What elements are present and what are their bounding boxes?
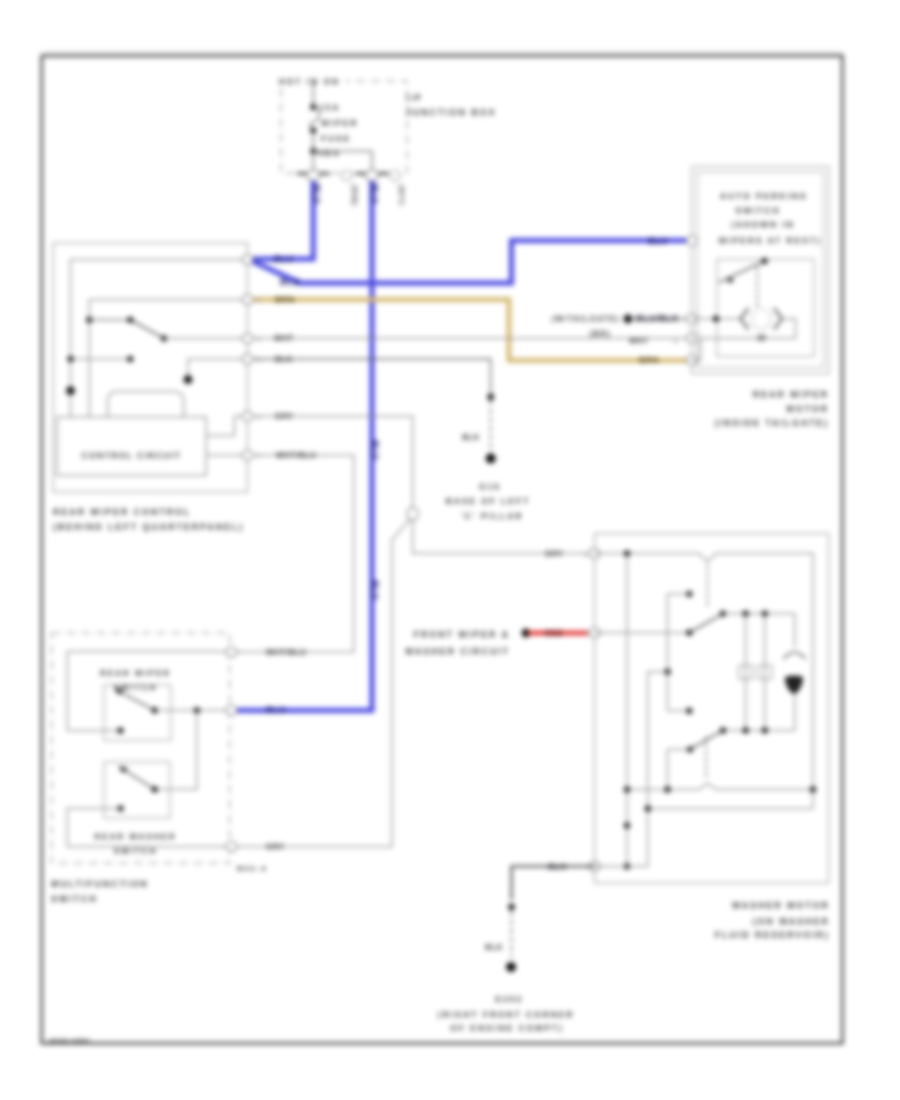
control box connector pins xyxy=(242,255,253,460)
node xyxy=(624,822,630,828)
label WASHER MOTOR xyxy=(715,901,830,940)
washer internal GRY row with actuator notch xyxy=(595,553,814,808)
washer switch upper contact stub xyxy=(668,591,693,714)
svg-text:BLU: BLU xyxy=(370,580,380,600)
rear washer switch lower contact xyxy=(117,805,123,811)
control circuit bump xyxy=(108,392,184,418)
label REAR WASHER SWITCH xyxy=(94,833,176,857)
ground G16 xyxy=(446,454,531,522)
control circuit box xyxy=(57,417,206,475)
parking switch connector pin WHT xyxy=(686,333,697,343)
svg-text:15A: 15A xyxy=(319,103,340,113)
svg-text:MULTIFUNCTION: MULTIFUNCTION xyxy=(51,879,149,889)
wire red to washer box xyxy=(586,632,592,634)
svg-text:3: 3 xyxy=(257,337,260,343)
svg-text:FUSE: FUSE xyxy=(321,134,351,144)
actuator link dashed lower xyxy=(705,737,707,780)
label MULTIFUNCTION SWITCH xyxy=(51,879,149,904)
svg-text:4BA: 4BA xyxy=(318,148,341,158)
svg-text:1: 1 xyxy=(584,552,587,558)
svg-text:BLU: BLU xyxy=(312,184,322,204)
splice node on left vertical xyxy=(66,386,75,395)
node xyxy=(645,805,651,811)
control box internal wire BRN row xyxy=(89,300,247,417)
junction box spare cavity 2 xyxy=(390,171,401,181)
splice S201 xyxy=(624,314,633,323)
svg-text:BLU: BLU xyxy=(369,184,379,204)
switch S1 arm xyxy=(130,320,164,339)
svg-text:BRN: BRN xyxy=(275,295,295,305)
parking switch connector pin BLU xyxy=(686,236,697,246)
wire wiper switch to BLU connector xyxy=(155,709,232,711)
label AUTO PARKING SWITCH xyxy=(718,191,821,246)
svg-text:BLU/BLK: BLU/BLK xyxy=(636,314,679,324)
node xyxy=(664,786,670,792)
node washer switch contact xyxy=(151,786,157,792)
rear wiper switch arm xyxy=(115,688,155,710)
svg-text:GRY: GRY xyxy=(545,549,564,558)
choke vertical 1 xyxy=(745,614,747,731)
svg-text:BLU: BLU xyxy=(274,254,294,264)
svg-text:(R/B): (R/B) xyxy=(350,185,359,206)
washer box connector pin GRY xyxy=(589,549,600,559)
node xyxy=(810,786,816,792)
washer switch arm 1 xyxy=(686,610,726,636)
label (W/TAILGATE) xyxy=(552,315,620,339)
svg-text:8: 8 xyxy=(257,358,260,364)
page frame shadow line xyxy=(44,51,842,53)
inline connector C1 xyxy=(407,507,418,520)
wire BLK control box to ground G16 xyxy=(251,359,494,454)
wire BLK row left stub xyxy=(67,356,133,362)
washer feed row xyxy=(595,632,690,634)
svg-text:RED: RED xyxy=(545,629,563,638)
ground G202 xyxy=(438,962,575,1033)
washer top row xyxy=(723,613,795,615)
svg-text:BLU: BLU xyxy=(280,277,300,287)
rear washer switch box xyxy=(104,762,170,818)
auto parking switch inner box xyxy=(717,259,814,356)
svg-text:REAR WIPER: REAR WIPER xyxy=(100,669,171,678)
wire WHT/BLU control box to multifunction switch xyxy=(236,455,354,652)
node junction xyxy=(194,707,200,713)
rear wiper motor box (inner) xyxy=(697,172,823,368)
wire BLK washer to ground G202 xyxy=(508,866,594,957)
label FRONT WIPER & WASHER CIRCUIT xyxy=(405,630,510,657)
node xyxy=(742,610,748,616)
svg-text:WASHER MOTOR: WASHER MOTOR xyxy=(732,901,830,911)
svg-text:6: 6 xyxy=(257,298,260,304)
svg-text:HOT IN ON: HOT IN ON xyxy=(279,78,340,87)
svg-text:7: 7 xyxy=(257,454,260,460)
svg-text:BLU: BLU xyxy=(648,236,668,246)
wire to switch pivot xyxy=(89,319,130,321)
washer box connector pin BLK xyxy=(589,862,600,872)
wire WHT control box to rear wiper motor xyxy=(251,337,690,339)
svg-text:'C' PILLAR: 'C' PILLAR xyxy=(461,511,524,521)
washer row2 xyxy=(648,808,813,810)
svg-text:OF ENGINE COMPT): OF ENGINE COMPT) xyxy=(450,1023,563,1033)
node feed crossing xyxy=(713,316,719,322)
node switch pivot xyxy=(127,317,133,323)
control box pin numbers xyxy=(257,258,260,460)
svg-text:AUTO PARKING: AUTO PARKING xyxy=(720,191,808,201)
node xyxy=(742,727,748,733)
svg-text:WHT/BLU: WHT/BLU xyxy=(266,648,306,657)
actuator link dashed upper xyxy=(707,566,709,608)
node xyxy=(624,786,630,792)
wire BRN control box to rear wiper motor xyxy=(251,300,690,361)
svg-text:FRONT WIPER &: FRONT WIPER & xyxy=(414,630,510,640)
multifunction switch box (dashed) xyxy=(52,633,230,863)
svg-text:WIPERS AT REST): WIPERS AT REST) xyxy=(718,236,821,246)
svg-text:M02-A: M02-A xyxy=(237,866,268,873)
parking switch pivot node xyxy=(761,258,767,264)
fuse value label xyxy=(318,103,358,159)
svg-text:CONTROL CIRCUIT: CONTROL CIRCUIT xyxy=(81,451,181,461)
wire GRY control box to washer motor xyxy=(251,416,592,553)
svg-text:(RIGHT FRONT CORNER: (RIGHT FRONT CORNER xyxy=(438,1010,575,1020)
page frame xyxy=(42,56,843,1044)
wire GRY multifunction switch to inline connector xyxy=(236,518,411,847)
rear wiper control box xyxy=(53,243,248,492)
svg-text:(R/Y): (R/Y) xyxy=(397,185,406,206)
svg-text:SWITCH: SWITCH xyxy=(735,206,780,216)
wire BLU junction box to multifunction switch (long vertical) xyxy=(236,181,372,710)
wire washer switch to GRY connector xyxy=(67,808,231,846)
wire BLK row right stub xyxy=(184,359,248,384)
svg-text:BRN: BRN xyxy=(639,355,659,365)
splice S202 xyxy=(522,629,531,638)
parking switch connector pin feed xyxy=(686,314,697,324)
junction box connector pin 1 xyxy=(297,170,330,181)
label REAR WIPER CONTROL xyxy=(53,507,244,532)
wire control circuit to WHT/BLU connector xyxy=(206,454,247,456)
node xyxy=(624,863,630,869)
parking switch actuator link (dashed) xyxy=(756,267,758,308)
wire branch fuse to second feed xyxy=(313,151,372,170)
wire branch to lower rows xyxy=(648,672,668,867)
parking switch arm xyxy=(719,261,765,284)
label REAR WIPER SWITCH xyxy=(100,669,171,693)
wire feed into motor xyxy=(692,318,741,320)
svg-text:MOTOR: MOTOR xyxy=(786,404,829,414)
node branch xyxy=(664,669,670,675)
svg-text:1: 1 xyxy=(257,415,260,421)
washer pump M2 xyxy=(784,614,806,731)
wire BLU fuse to control box connector xyxy=(253,181,313,259)
svg-text:(SHOWN IN: (SHOWN IN xyxy=(731,220,795,230)
svg-text:REAR WIPER CONTROL: REAR WIPER CONTROL xyxy=(53,507,191,517)
svg-text:2: 2 xyxy=(674,340,677,346)
choke vertical 2 xyxy=(764,614,766,731)
svg-text:BLK: BLK xyxy=(462,433,480,442)
svg-text:WIPER: WIPER xyxy=(321,118,358,128)
svg-text:SWITCH: SWITCH xyxy=(114,847,158,856)
junction box spare cavity 1 xyxy=(342,171,353,181)
svg-text:JUNCTION BOX: JUNCTION BOX xyxy=(406,108,496,118)
multifunction connector pin GRY xyxy=(226,842,237,852)
svg-text:I/P: I/P xyxy=(406,93,423,103)
node wiper switch output xyxy=(151,707,157,713)
svg-text:(ON WASHER: (ON WASHER xyxy=(753,916,830,926)
wire BRN link inside motor box xyxy=(692,338,701,360)
rear wiper motor box (outer) xyxy=(692,167,829,374)
svg-text:BLU: BLU xyxy=(370,440,380,460)
svg-text:(BEHIND LEFT QUARTERPANEL): (BEHIND LEFT QUARTERPANEL) xyxy=(53,522,244,532)
label REAR WIPER MOTOR xyxy=(715,389,829,428)
wire RED front wiper feed xyxy=(528,631,588,635)
svg-text:BASE OF LEFT: BASE OF LEFT xyxy=(446,496,531,506)
rear washer switch arm xyxy=(119,766,155,789)
wire motor loop to WHT xyxy=(692,319,796,338)
motor M1 xyxy=(741,308,783,344)
node switch contact xyxy=(161,335,167,341)
svg-text:BLK: BLK xyxy=(485,943,503,952)
node xyxy=(624,550,630,556)
wire BLU control box to auto parking switch xyxy=(252,241,690,284)
fuse F1 symbol xyxy=(310,104,319,170)
node switch feed xyxy=(86,317,92,323)
washer motor box xyxy=(595,534,829,884)
control box internal wire BLU row xyxy=(71,260,248,417)
svg-text:G202: G202 xyxy=(495,994,524,1004)
washer internal left vertical xyxy=(626,553,628,866)
svg-text:G16: G16 xyxy=(479,482,501,492)
wire control circuit to GRY connector xyxy=(206,416,247,435)
label I/P JUNCTION BOX xyxy=(406,93,496,118)
junction box connector pin 2 xyxy=(356,170,389,181)
multifunction connector pin BLU xyxy=(226,706,237,716)
svg-text:HD80-50B2: HD80-50B2 xyxy=(49,1038,91,1045)
washer bottom row xyxy=(723,729,795,731)
washer ground row xyxy=(595,865,648,867)
svg-text:2: 2 xyxy=(257,258,260,264)
svg-text:WHT: WHT xyxy=(629,337,649,346)
svg-text:GRY: GRY xyxy=(275,412,294,421)
svg-text:FLUID RESERVOIR): FLUID RESERVOIR) xyxy=(715,930,830,940)
svg-text:SWITCH: SWITCH xyxy=(51,894,98,904)
svg-text:REAR WIPER: REAR WIPER xyxy=(753,389,829,399)
washer switch arm 2 xyxy=(687,727,726,752)
choke box 1 xyxy=(739,666,752,680)
rear wiper switch contact xyxy=(117,727,123,733)
fuse F1 wire from top xyxy=(312,81,314,107)
svg-text:REAR WASHER: REAR WASHER xyxy=(94,833,176,842)
svg-text:BLK: BLK xyxy=(548,862,567,872)
node xyxy=(762,610,768,616)
choke box 2 xyxy=(758,666,771,680)
parking switch connector pin BRN xyxy=(686,356,697,366)
multifunction connector pin WHT/BLU xyxy=(226,647,237,657)
svg-text:WHT: WHT xyxy=(274,334,294,343)
I/P junction box (dashed) xyxy=(276,75,407,173)
node xyxy=(762,727,768,733)
wire junction to washer switch xyxy=(155,710,197,789)
washer switch lower contact stub xyxy=(668,749,691,789)
svg-text:WASHER CIRCUIT: WASHER CIRCUIT xyxy=(405,647,510,657)
washer box connector pin RED xyxy=(589,628,600,638)
multifunction WHT/BLU row xyxy=(67,652,231,731)
terminal circle on inner box edge xyxy=(695,335,701,341)
rear wiper switch box xyxy=(104,685,171,740)
svg-text:(W/TAILGATE): (W/TAILGATE) xyxy=(552,315,620,324)
svg-text:GRY: GRY xyxy=(266,843,285,852)
svg-text:(INSIDE TAILGATE): (INSIDE TAILGATE) xyxy=(715,418,829,428)
washer row1 with actuator notch xyxy=(627,783,813,790)
svg-text:BLU: BLU xyxy=(266,705,286,715)
svg-text:(BR): (BR) xyxy=(589,330,611,339)
svg-text:BLK: BLK xyxy=(275,355,293,364)
svg-text:WHT/BLU: WHT/BLU xyxy=(276,451,316,460)
wire splice to motor connector xyxy=(628,318,690,320)
wire switch to WHT connector xyxy=(164,337,248,339)
